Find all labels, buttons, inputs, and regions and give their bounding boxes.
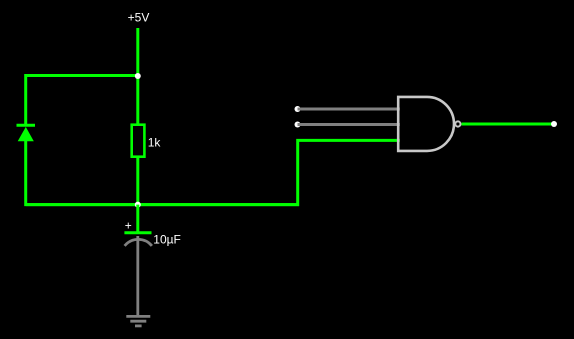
NAND gate U1 (body) bbox=[398, 97, 454, 151]
wire junction B to capacitor bbox=[136, 205, 139, 233]
ground bbox=[126, 316, 150, 326]
wire +5V to junction A bbox=[136, 28, 139, 77]
NAND gate U1 (inversion bubble) bbox=[455, 121, 460, 126]
junction A bbox=[135, 73, 141, 79]
wire junction A to resistor bbox=[136, 76, 139, 124]
wire bottom bus to NAND input C bbox=[26, 140, 400, 204]
wire capacitor to ground bbox=[136, 236, 139, 316]
wire NAND input A bbox=[298, 108, 400, 111]
junction B bbox=[135, 202, 141, 208]
wire NAND output bbox=[462, 123, 555, 126]
capacitor 10µF negative plate (curved) bbox=[125, 239, 152, 246]
capacitor 10µF positive plate bbox=[124, 231, 151, 234]
diode (cathode bar) bbox=[17, 124, 36, 127]
wire diode to bottom bus bbox=[26, 141, 299, 205]
input post 2 bbox=[295, 122, 301, 128]
svg-text:10µF: 10µF bbox=[153, 232, 181, 246]
wire junction A to diode (top horizontal + left vertical) bbox=[26, 76, 138, 125]
resistor 1k (box) bbox=[132, 125, 145, 157]
svg-text:+5V: +5V bbox=[128, 11, 150, 25]
wire NAND input B bbox=[298, 123, 400, 126]
svg-text:+: + bbox=[125, 218, 132, 232]
output post bbox=[551, 121, 557, 127]
diode (anode triangle) bbox=[18, 127, 34, 141]
svg-text:1k: 1k bbox=[148, 136, 162, 150]
input post 1 bbox=[295, 106, 301, 112]
wire resistor to junction B bbox=[136, 158, 139, 205]
